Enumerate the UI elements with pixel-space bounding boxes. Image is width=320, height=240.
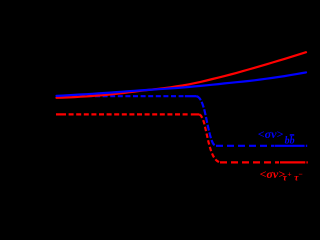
curve: red flat run before drop: [191, 113, 200, 115]
curve: blue final end dash: [306, 145, 307, 147]
label: overbar of b-bar: [290, 134, 294, 136]
curve: red solid bottom-right run: [280, 161, 305, 163]
curve: blue dashed S-drop: [197, 96, 217, 146]
curve: red dashed flat top segment (long first dash): [56, 113, 190, 115]
curve: blue flat run before drop: [185, 95, 197, 97]
svg-text:bb: bb: [285, 136, 295, 147]
curve: solid blue <sigma v> bb rising: [57, 72, 307, 96]
curve: solid red <sigma v> tau+tau- rising: [57, 52, 307, 98]
curve: blue dashed flat top segment: [57, 95, 184, 97]
curve: red dashed flat bottom segment: [220, 161, 279, 163]
svg-text:+: +: [287, 170, 291, 179]
svg-text:<σv>: <σv>: [258, 127, 284, 141]
svg-text:−: −: [298, 169, 302, 178]
curve: red dashed S-drop: [200, 114, 221, 162]
svg-text:<σv>: <σv>: [260, 167, 286, 181]
curve: blue dashed flat bottom segment: [216, 145, 274, 147]
curve: blue solid bottom-right run: [275, 145, 305, 147]
curve: red final end dash: [306, 161, 307, 163]
